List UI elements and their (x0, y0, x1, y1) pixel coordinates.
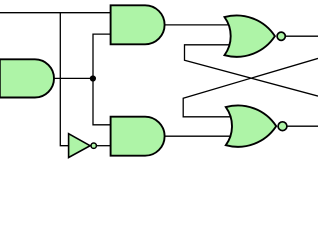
nor-gate G5 (top) body (225, 15, 275, 56)
wire: feedback from upper-right to bottom NOR upper input (183, 58, 318, 116)
wire: bottom NOR output Qbar (285, 125, 318, 127)
wire: left AND output to junction (52, 77, 93, 79)
nor-gate G6 bubble (278, 122, 287, 131)
node: junction dot (90, 75, 96, 81)
inverter G4 (69, 134, 91, 158)
and-gate G1 (left) (0, 59, 54, 97)
wire: top NOR output Q (285, 35, 318, 37)
nor-gate G5 bubble (277, 32, 285, 40)
and-gate G2 (top) (111, 5, 165, 44)
wire: feedback from lower-right to top NOR lower input (185, 45, 319, 96)
inverter G4 bubble (91, 143, 96, 148)
wire: input E (top horizontal) (0, 12, 111, 14)
wire: inverter output to bottom AND lower input (97, 145, 112, 147)
and-gate G3 (bottom) (111, 117, 165, 156)
wire: vertical from E wire down to inverter input (60, 13, 69, 146)
nor-gate G6 (bottom) body (226, 105, 276, 146)
wire: junction down to bottom AND upper input (93, 78, 111, 124)
wire: top AND output to top NOR upper input (163, 24, 232, 26)
wire: bottom AND output to bottom NOR lower input (163, 135, 232, 137)
wire: junction up to top AND lower input (93, 34, 111, 78)
